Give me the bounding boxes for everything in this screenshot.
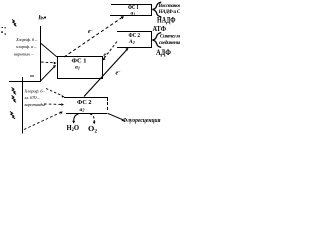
svg-text:АТФ: АТФ xyxy=(153,24,167,33)
svg-text:е–: е– xyxy=(116,69,122,77)
tick mark dash xyxy=(30,75,34,77)
wire fan F2 dashed arrow to U3 left edge xyxy=(41,61,54,64)
box U4 (bottom PS II box, open left, dashed lower right edge) xyxy=(64,98,108,102)
wire fluorescence line from U4 corner xyxy=(108,114,123,120)
svg-text:а2: а2 xyxy=(80,107,85,113)
svg-text:каротинды: каротинды xyxy=(25,102,46,107)
wire vertical line B (light funnel, lower) xyxy=(22,77,24,134)
svg-text:hν: hν xyxy=(39,15,46,22)
wire O2 dashed arc under U4 xyxy=(90,114,94,122)
svg-text:Хлороф. б–: Хлороф. б– xyxy=(24,89,46,94)
svg-text:каротин. –: каротин. – xyxy=(14,52,34,57)
light squiggle at B no.3 xyxy=(10,112,15,119)
wire fan F1 solid to U3 top-left corner xyxy=(41,43,58,57)
svg-text:е–: е– xyxy=(88,27,94,35)
brace for U1 xyxy=(152,2,161,17)
svg-text:а1: а1 xyxy=(75,65,80,71)
box U1 (top-right reaction I box, open left) xyxy=(110,5,152,16)
svg-text:ФС 2: ФС 2 xyxy=(77,99,92,106)
svg-text:е–: е– xyxy=(104,51,110,59)
svg-text:АДФ: АДФ xyxy=(156,48,171,57)
svg-text:Н2О: Н2О xyxy=(67,123,80,133)
svg-text:а1: а1 xyxy=(131,11,136,17)
svg-text:хлороф. а –: хлороф. а – xyxy=(15,44,37,49)
light squiggle top-left xyxy=(12,20,16,27)
dot after hv xyxy=(44,17,46,19)
wire dashed electron arrow U2 area to U3 xyxy=(104,42,118,60)
light squiggle at B no.1 xyxy=(12,88,17,95)
svg-text:Синтез мак.: Синтез мак. xyxy=(160,33,180,39)
box U2 (mid-right reaction II box, open left) xyxy=(117,32,152,48)
wire vertical line A (light funnel, upper) xyxy=(40,26,42,82)
svg-text:Восстановл.: Восстановл. xyxy=(158,3,181,9)
svg-text:Флуоресценция: Флуоресценция xyxy=(123,118,161,124)
box U3 (middle PS I box) xyxy=(58,57,103,79)
svg-text:хл. 670 –: хл. 670 – xyxy=(24,95,41,100)
light squiggle at B no.2 xyxy=(12,96,17,103)
wire H2O arc under U4 xyxy=(74,114,79,121)
svg-text:А2: А2 xyxy=(128,39,135,45)
wire dashed fan to U4 middle xyxy=(44,103,62,105)
speck marks left edge xyxy=(1,32,3,33)
wire solid electron line U4 to U2 xyxy=(84,50,127,97)
wire dashed fan to U4 lower from B bottom xyxy=(24,113,61,130)
wire dashed fan to U4 upper xyxy=(46,89,63,96)
svg-text:ФС 1: ФС 1 xyxy=(72,59,87,65)
svg-text:соединений: соединений xyxy=(159,39,180,46)
wire dashed electron arrow U3 to U1 xyxy=(64,18,122,58)
svg-text:НАДФ и СО2: НАДФ и СО2 xyxy=(158,9,181,15)
brace for U2 xyxy=(152,33,161,48)
svg-text:Хлороф. б –: Хлороф. б – xyxy=(15,37,38,42)
wire horizontal foot of A xyxy=(9,81,41,83)
svg-text:О2: О2 xyxy=(88,124,98,134)
wire fan F3 solid arrow from A foot to U3 left edge xyxy=(40,67,54,82)
